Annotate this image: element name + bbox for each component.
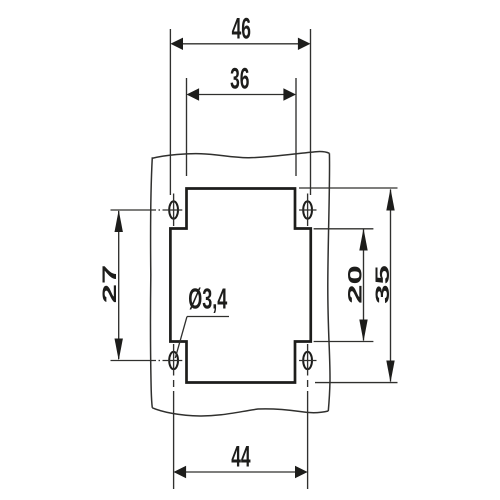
svg-text:27: 27 <box>99 265 120 304</box>
svg-text:35: 35 <box>372 265 393 304</box>
svg-text:46: 46 <box>232 13 251 46</box>
svg-text:36: 36 <box>230 63 249 96</box>
svg-text:44: 44 <box>231 441 251 474</box>
svg-text:20: 20 <box>345 265 366 304</box>
svg-text:Ø3,4: Ø3,4 <box>188 283 227 315</box>
